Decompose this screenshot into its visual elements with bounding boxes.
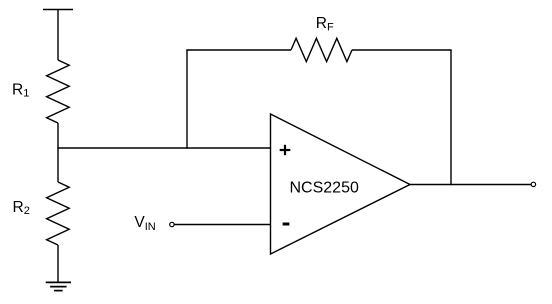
op-amp minus input symbol: [283, 223, 290, 226]
feedback wire right vertical: [450, 50, 452, 185]
op-amp plus input symbol: [280, 145, 291, 155]
resistor RF: [291, 38, 352, 61]
wire node A to op-amp non-inverting input: [57, 147, 270, 149]
feedback top wire right segment: [352, 49, 452, 51]
output wire: [410, 184, 531, 186]
svg-text:R1: R1: [12, 81, 29, 99]
op-amp U1 NCS2250: [271, 114, 411, 254]
terminal VIN: [170, 222, 174, 226]
wire: [57, 123, 59, 182]
wire VIN to op-amp inverting input: [174, 224, 270, 226]
svg-text:R2: R2: [13, 199, 30, 217]
ground: [46, 282, 71, 290]
feedback wire left vertical: [186, 50, 188, 149]
resistor R2: [47, 182, 70, 245]
resistor R1: [47, 60, 70, 123]
power rail VCC: [43, 9, 73, 11]
wire: [57, 245, 59, 282]
svg-text:VIN: VIN: [134, 214, 155, 233]
feedback top wire left segment: [186, 49, 291, 51]
svg-text:RF: RF: [316, 15, 334, 33]
terminal output: [531, 182, 535, 186]
svg-text:NCS2250: NCS2250: [290, 180, 359, 197]
wire: [57, 10, 59, 61]
